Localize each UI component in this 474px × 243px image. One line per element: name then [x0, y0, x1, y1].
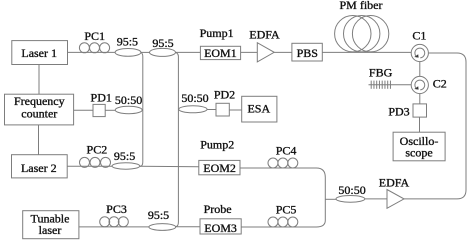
svg-text:Probe: Probe — [204, 202, 232, 216]
wire EOM2 via PC4 joining bracket down to EOM3 row — [240, 168, 325, 227]
coupler E7 50:50 — [336, 196, 365, 203]
circulator C2 — [411, 76, 428, 93]
svg-text:PBS: PBS — [297, 46, 318, 60]
svg-text:50:50: 50:50 — [181, 91, 208, 105]
wire C2 to FBG — [369, 84, 412, 86]
polarization controller PC4 — [268, 158, 298, 168]
coupler E6 50:50 — [179, 106, 207, 113]
svg-text:C2: C2 — [433, 76, 447, 90]
wire E1 to E2 — [141, 51, 150, 53]
box EOM1 — [200, 46, 240, 59]
svg-text:C1: C1 — [412, 29, 426, 43]
svg-text:PC1: PC1 — [84, 29, 105, 43]
box Laser 1 — [12, 41, 68, 65]
svg-text:PD3: PD3 — [388, 105, 409, 119]
box Tunable laser — [23, 211, 79, 239]
svg-text:PD2: PD2 — [214, 87, 235, 101]
wire Frequency counter to Laser2 — [38, 125, 40, 155]
wire EDFA1 to PBS — [274, 51, 292, 53]
svg-text:PC5: PC5 — [276, 203, 297, 217]
wire E7 to EDFA2 — [365, 198, 387, 200]
wire C1 to C2 — [419, 62, 421, 77]
svg-text:EDFA: EDFA — [379, 175, 410, 189]
coupler E5 50:50 — [115, 106, 142, 113]
amplifier EDFA1 triangle — [257, 43, 274, 62]
svg-text:EOM3: EOM3 — [204, 221, 237, 235]
photodetector PD2 — [216, 103, 229, 116]
coupler E3 95:5 — [112, 163, 140, 169]
box ESA — [242, 96, 277, 122]
svg-text:counter: counter — [21, 107, 57, 121]
wire tap E1 down to E3 (vertical bus 1) — [140, 52, 143, 166]
box Frequency counter — [5, 94, 74, 125]
svg-text:EDFA: EDFA — [249, 28, 280, 42]
circulator C1 — [411, 44, 428, 61]
svg-text:PC4: PC4 — [276, 143, 297, 157]
svg-text:laser: laser — [39, 223, 62, 237]
grating FBG ticks — [371, 81, 390, 89]
amplifier EDFA2 triangle — [387, 190, 404, 209]
svg-text:50:50: 50:50 — [115, 93, 142, 107]
svg-text:ESA: ESA — [247, 102, 270, 116]
svg-text:PC3: PC3 — [106, 202, 127, 216]
wire E3 to EOM2 — [140, 165, 199, 168]
coupler E4 95:5 — [149, 224, 176, 231]
svg-text:95:5: 95:5 — [117, 35, 138, 49]
svg-text:95:5: 95:5 — [114, 149, 135, 163]
wire C2 to PD3 — [419, 94, 421, 104]
svg-text:PC2: PC2 — [87, 143, 108, 157]
svg-text:50:50: 50:50 — [338, 183, 365, 197]
fiber spool PM fiber — [335, 16, 389, 52]
svg-text:PM fiber: PM fiber — [340, 0, 383, 12]
coupler E2 95:5 — [150, 48, 176, 56]
wire PD1 to coupler E5 — [105, 109, 115, 111]
svg-text:EOM1: EOM1 — [204, 46, 237, 60]
wire Laser1 to Frequency counter — [38, 65, 40, 95]
box PBS — [292, 43, 322, 61]
wire PD3 to Oscilloscope — [419, 117, 421, 132]
svg-text:95:5: 95:5 — [152, 36, 173, 50]
svg-text:FBG: FBG — [369, 65, 393, 79]
box Oscilloscope — [393, 132, 445, 161]
polarization controller PC2 — [80, 157, 111, 167]
wire PBS to C1 through PM fiber — [322, 51, 411, 53]
wire E2 to EOM1 — [176, 51, 201, 53]
box EOM3 — [200, 219, 241, 234]
polarization controller PC1 — [79, 43, 109, 53]
wire Frequency counter to PD1 — [74, 109, 93, 111]
box Laser 2 — [12, 155, 68, 178]
wire tap E2 down to E4 (vertical bus 2) — [175, 52, 178, 226]
svg-text:Laser 1: Laser 1 — [21, 46, 57, 60]
coupler E1 95:5 — [115, 49, 141, 57]
wire Laser2 to E3 — [67, 165, 112, 167]
polarization controller PC3 — [100, 217, 129, 227]
svg-text:scope: scope — [405, 145, 432, 159]
photodetector PD1 — [93, 104, 105, 116]
box EOM2 — [199, 160, 240, 174]
wire EOM1 to EDFA1 — [241, 51, 258, 53]
wire C1 around right side to EDFA2 — [404, 53, 466, 199]
wire Tunable laser to E4 — [79, 226, 149, 228]
wire PD2 to ESA — [229, 109, 241, 111]
svg-text:PD1: PD1 — [91, 91, 112, 105]
wire E6 to PD2 — [207, 109, 216, 111]
photodetector PD3 — [413, 104, 427, 117]
svg-text:Laser 2: Laser 2 — [21, 161, 57, 175]
wire Laser1 to coupler E1 — [68, 51, 116, 53]
polarization controller PC5 — [268, 217, 298, 227]
svg-text:Pump2: Pump2 — [200, 137, 234, 151]
wire E4 to EOM3 — [176, 226, 200, 228]
wire bracket to coupler E7 — [325, 198, 336, 200]
svg-text:EOM2: EOM2 — [203, 161, 236, 175]
svg-text:95:5: 95:5 — [148, 208, 169, 222]
svg-text:Pump1: Pump1 — [200, 26, 234, 40]
